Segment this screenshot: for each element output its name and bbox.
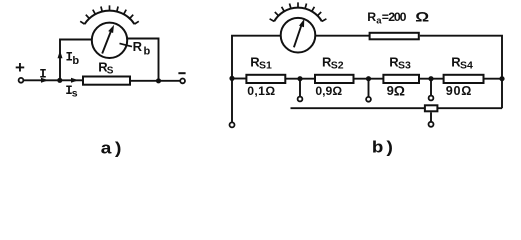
wire bbox=[285, 78, 315, 80]
slider terminal bbox=[429, 122, 434, 127]
wire bbox=[127, 39, 158, 81]
wire bbox=[131, 80, 181, 82]
svg-text:b: b bbox=[144, 45, 151, 57]
slider box bbox=[425, 105, 438, 111]
svg-text:0,1Ω: 0,1Ω bbox=[247, 84, 275, 98]
scale ticks (b) bbox=[270, 2, 327, 21]
needle (b) bbox=[294, 24, 302, 48]
svg-text:0,9Ω: 0,9Ω bbox=[315, 84, 342, 98]
resistor Rs2 bbox=[315, 75, 354, 83]
svg-text:S: S bbox=[107, 66, 114, 77]
needle (a) bbox=[102, 30, 111, 54]
wire bbox=[419, 78, 444, 80]
svg-text:R: R bbox=[133, 39, 143, 54]
tap wire 1 bbox=[299, 79, 301, 97]
wire chain end bbox=[484, 78, 503, 80]
svg-text:S4: S4 bbox=[460, 60, 473, 72]
svg-text:Ω: Ω bbox=[415, 10, 429, 25]
wire chain start bbox=[232, 78, 247, 80]
slider stem wire bbox=[430, 112, 432, 121]
wire bbox=[24, 79, 83, 81]
galvanometer U1 (a) bbox=[92, 23, 127, 58]
scale arc (a) bbox=[85, 11, 135, 25]
svg-text:S2: S2 bbox=[331, 60, 344, 72]
current arrow Is bbox=[71, 78, 79, 83]
wire Ra to right corner and down bbox=[420, 36, 502, 109]
node left (b) bbox=[229, 76, 234, 81]
current arrow Ib bbox=[58, 51, 63, 59]
wire left side (b) bbox=[232, 36, 281, 122]
resistor Rs bbox=[83, 77, 130, 85]
node 1 (b) bbox=[297, 76, 302, 81]
node 3 (b) bbox=[428, 76, 433, 81]
svg-text:R: R bbox=[367, 10, 376, 24]
tap terminal 2 bbox=[366, 97, 371, 102]
terminal + (a) bbox=[19, 78, 24, 83]
resistor Rs3 bbox=[383, 75, 419, 83]
terminal - (a) bbox=[180, 79, 185, 84]
svg-text:+: + bbox=[15, 58, 25, 77]
svg-text:Ω: Ω bbox=[394, 83, 405, 99]
terminal left (b) bbox=[230, 122, 235, 127]
tap terminal 3 bbox=[429, 96, 434, 101]
tap terminal 1 bbox=[298, 97, 303, 102]
label Rb pointer bbox=[120, 43, 133, 46]
svg-text:90Ω: 90Ω bbox=[446, 84, 472, 98]
label - bbox=[178, 72, 185, 74]
current arrow I bbox=[41, 78, 49, 83]
svg-text:I: I bbox=[39, 68, 47, 82]
wire bbox=[354, 78, 384, 80]
resistor Ra bbox=[370, 33, 419, 40]
tap wire 2 bbox=[368, 79, 370, 97]
resistor Rs1 bbox=[246, 75, 285, 83]
resistor Rs4 bbox=[444, 75, 484, 83]
node 2 (b) bbox=[366, 76, 371, 81]
svg-text:b): b) bbox=[372, 140, 396, 159]
node right (b) bbox=[499, 76, 504, 81]
scale arc (b) bbox=[274, 8, 322, 22]
svg-text:a): a) bbox=[100, 141, 124, 160]
node A (a) bbox=[57, 78, 62, 83]
svg-text:9: 9 bbox=[387, 83, 394, 98]
galvanometer U2 (b) bbox=[281, 18, 316, 53]
wire bbox=[60, 40, 91, 81]
svg-text:b: b bbox=[72, 55, 79, 67]
rail wire (b) bbox=[291, 107, 503, 109]
svg-text:S1: S1 bbox=[259, 60, 272, 72]
svg-text:S3: S3 bbox=[398, 60, 411, 72]
node B (a) bbox=[156, 78, 161, 83]
tap wire 3 bbox=[430, 79, 432, 96]
wire meter to Ra bbox=[315, 35, 370, 37]
scale ticks (a) bbox=[80, 5, 139, 24]
svg-text:s: s bbox=[72, 88, 78, 100]
svg-text:200: 200 bbox=[388, 10, 406, 24]
